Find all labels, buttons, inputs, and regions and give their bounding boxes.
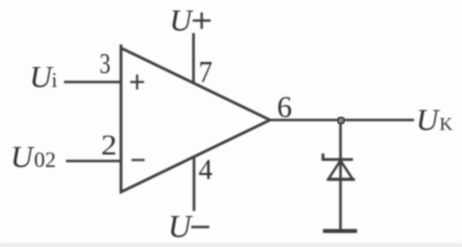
wire U- supply from pin 4 bbox=[193, 157, 196, 212]
svg-text:i: i bbox=[52, 68, 58, 92]
node junction dot on output bbox=[338, 117, 344, 123]
plus sign at pin 3 input bbox=[130, 75, 144, 90]
scan shading bottom edge bbox=[0, 243, 462, 247]
svg-text:02: 02 bbox=[34, 147, 56, 172]
svg-text:2: 2 bbox=[101, 130, 117, 162]
plus sign of U+ label bbox=[193, 13, 211, 29]
op-amp U1 triangle body bbox=[121, 45, 270, 193]
zener diode D1 cathode bar bbox=[323, 154, 353, 160]
svg-text:U: U bbox=[170, 3, 195, 38]
svg-text:U: U bbox=[11, 139, 36, 174]
wire output pin 6 to UK bbox=[269, 119, 414, 122]
zener diode D1 triangle bbox=[329, 161, 353, 180]
wire U+ supply to pin 7 bbox=[192, 33, 195, 84]
minus sign at pin 2 input bbox=[132, 159, 145, 161]
wire input U02 to pin 2 bbox=[66, 160, 122, 163]
zener diode D1 base bar bbox=[327, 178, 355, 181]
svg-text:4: 4 bbox=[199, 154, 213, 186]
ground bbox=[323, 229, 357, 233]
svg-text:U: U bbox=[168, 208, 193, 244]
wire input Ui to pin 3 bbox=[64, 81, 122, 84]
svg-text:K: K bbox=[440, 114, 453, 134]
svg-text:7: 7 bbox=[199, 54, 213, 89]
minus sign of U- label bbox=[191, 226, 209, 228]
wire node to zener cathode bbox=[339, 120, 342, 230]
svg-text:U: U bbox=[416, 102, 441, 137]
svg-text:6: 6 bbox=[277, 89, 292, 124]
svg-text:3: 3 bbox=[100, 48, 111, 80]
